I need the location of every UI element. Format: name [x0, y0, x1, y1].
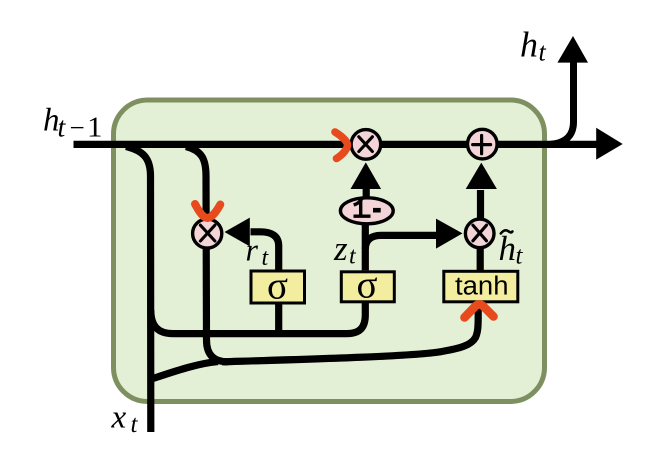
- label: h_{t-1}: [43, 103, 103, 144]
- wire: h_{t-1} main horizontal line: [74, 141, 599, 148]
- wire: bus A (to sigma gates): [151, 302, 365, 334]
- op: top multiply (x) on main line: [351, 130, 381, 160]
- svg-text:h: h: [499, 229, 517, 268]
- wire: x_t sloped branch merging into bus B: [152, 362, 219, 379]
- gate: tanh box: [444, 271, 518, 302]
- svg-text:1: 1: [87, 112, 103, 143]
- op: candidate multiply: [465, 219, 494, 248]
- annotation: red chevron left of top multiply: [335, 132, 348, 159]
- annotation: red check over reset multiply: [195, 204, 220, 218]
- arrowhead: h_t output up: [557, 36, 588, 63]
- arrowhead: into top multiply (pointing up): [351, 162, 382, 189]
- wire: tanh output up to candidate multiply: [477, 246, 484, 271]
- wire: candidate multiply up to plus: [477, 190, 484, 220]
- svg-text:z: z: [333, 229, 348, 268]
- svg-text:t: t: [58, 112, 67, 143]
- svg-text:σ: σ: [267, 264, 288, 307]
- svg-text:tanh: tanh: [455, 272, 509, 300]
- wire: 1- ellipse up to top multiply: [363, 187, 370, 198]
- wire: bus B (to tanh input): [222, 302, 478, 362]
- cell body (GRU unit): [114, 100, 545, 402]
- svg-text:h: h: [520, 25, 538, 65]
- op: 1- ellipse: [340, 198, 393, 224]
- svg-text:t: t: [131, 411, 139, 438]
- label: r_t: [246, 232, 270, 272]
- label: x_t (input): [111, 400, 139, 439]
- arrowhead: main line output right: [596, 128, 623, 160]
- svg-text:σ: σ: [357, 264, 378, 307]
- op: reset-gate multiply: [193, 219, 222, 248]
- wire: branch 1 from h line down (h to gates / x_t trunk): [126, 147, 151, 433]
- label: h_t (output): [520, 25, 547, 67]
- label: h~_t (candidate): [499, 229, 524, 270]
- arrowhead: into reset multiply (pointing left): [225, 218, 250, 247]
- label: z_t: [333, 229, 357, 270]
- arrowhead: into plus (pointing up): [466, 163, 497, 189]
- gate: sigma_z box: [341, 264, 394, 307]
- arrowhead: into candidate multiply (pointing right): [436, 219, 463, 249]
- wire: branch to h_t output (vertical up, top-right): [551, 59, 574, 144]
- gate: sigma_r box: [251, 264, 305, 307]
- wire: branch 2 from h line down through reset-gate multiply: [186, 147, 228, 362]
- annotation: red chevron under tanh: [465, 304, 494, 317]
- op: plus on main line: [468, 129, 498, 159]
- svg-text:−: −: [70, 112, 85, 142]
- wire: z branch right into candidate multiply: [365, 235, 437, 249]
- svg-text:t: t: [539, 38, 547, 67]
- wire: sigma_r bottom connector to bus A: [275, 303, 282, 336]
- wire: sigma_r output up-left to reset multiply: [251, 232, 279, 270]
- svg-text:x: x: [111, 400, 127, 436]
- svg-text:r: r: [246, 232, 259, 268]
- svg-text:t: t: [516, 243, 524, 270]
- wire: z line from sigma_z up to 1- ellipse: [362, 224, 369, 270]
